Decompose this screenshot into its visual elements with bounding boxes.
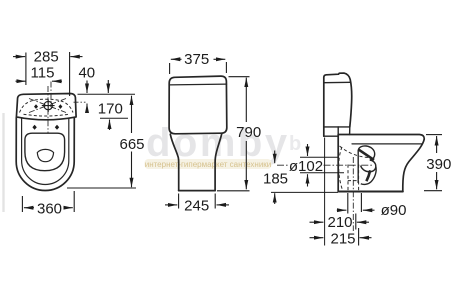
svg-text:790: 790 [236, 124, 261, 141]
cistern side outline [324, 73, 352, 136]
o90 ext left [347, 193, 349, 214]
pipe bottom hidden [348, 180, 359, 182]
svg-text:360: 360 [37, 201, 62, 218]
hinge diamonds [32, 125, 59, 130]
svg-text:245: 245 [184, 198, 209, 215]
watermark tan band [145, 159, 272, 169]
seat opening [25, 133, 65, 171]
dim 390 line arrows [424, 135, 442, 191]
dim 360 arrows [22, 191, 74, 212]
ext 245 right [214, 194, 216, 209]
ext 360 left [21, 196, 23, 212]
ext 390 bottom [424, 190, 442, 192]
svg-text:215: 215 [330, 230, 355, 247]
svg-text:40: 40 [78, 64, 95, 81]
svg-text:170: 170 [98, 101, 123, 118]
ext 790 top [229, 76, 250, 78]
ext 790 bottom [217, 190, 250, 192]
dim 115 arrows [16, 80, 63, 82]
dim 215 arrows [310, 228, 372, 246]
ext line left 285 [25, 53, 27, 86]
ext line tank rear [78, 93, 136, 95]
watermark faint arc far left [2, 113, 4, 212]
bowl rim hidden dashes [340, 146, 370, 158]
cistern top outline [16, 94, 76, 120]
svg-text:ø90: ø90 [381, 202, 407, 219]
ext line hinge level [100, 117, 128, 119]
o90 ext right [360, 193, 362, 212]
dim 170 arrows [108, 80, 109, 130]
ext 375 right [225, 62, 227, 73]
dim 665 line arrows [131, 96, 133, 188]
ext 360 right [73, 191, 75, 212]
lid front dashed arc [24, 114, 69, 116]
svg-text:375: 375 [184, 51, 209, 68]
o102 leader dashdot [277, 164, 372, 166]
svg-text:b: b [289, 133, 301, 155]
o102 ext lower [300, 172, 344, 174]
pedestal right [215, 134, 222, 191]
seat top surface [338, 135, 424, 140]
ext 390 top [426, 134, 442, 136]
bowl back vertical [337, 135, 339, 192]
215 tick right [358, 228, 360, 246]
trap back hidden dashes [339, 147, 343, 190]
dim o102 arrows [307, 144, 309, 187]
flush button target [42, 99, 55, 112]
back wall ext vertical [324, 138, 326, 246]
svg-text:210: 210 [327, 214, 352, 231]
svg-text:285: 285 [34, 49, 59, 66]
floor ext to 185 [271, 191, 338, 193]
bowl front edge [403, 139, 424, 191]
ext 245 left [178, 194, 180, 209]
base bottom [179, 190, 215, 192]
outlet centerline dashdot [352, 157, 354, 231]
o102 ext upper [300, 156, 338, 158]
dim 375 arrows [170, 59, 227, 74]
dim 210 arrows [310, 214, 370, 230]
ext 375 left [169, 63, 171, 74]
dim o90 arrows [337, 193, 375, 214]
dim 185 arrows [274, 151, 276, 205]
housing below cistern [324, 127, 338, 136]
base bottom line [338, 191, 402, 193]
cistern right edge to seat [349, 127, 351, 135]
dim 115 centerline dashdot [50, 82, 52, 104]
svg-text:115: 115 [31, 64, 55, 81]
cistern bottom [324, 126, 350, 128]
pedestal left [170, 134, 178, 190]
bowl outer U [16, 118, 74, 191]
dim 790 line arrows [217, 77, 250, 191]
water smile [37, 149, 53, 161]
dim 40 arrows [86, 81, 88, 113]
tank front outline [169, 76, 227, 134]
lid seam [169, 83, 226, 86]
seat outer line [22, 119, 69, 185]
svg-text:390: 390 [426, 156, 451, 173]
dashdot diagonals through button [29, 99, 66, 113]
svg-text:665: 665 [119, 136, 144, 153]
seat lower edge [352, 143, 422, 145]
dim 285 arrows [13, 52, 83, 96]
svg-text:интернет-гипермаркет сантехник: интернет-гипермаркет сантехники [145, 160, 272, 169]
tank top small diamonds [34, 104, 62, 109]
210 tick right [355, 214, 357, 230]
ext line right 285 [69, 52, 71, 96]
svg-text:185: 185 [263, 171, 288, 188]
lid inner dashed arc [20, 99, 74, 112]
center vertical dashdot [47, 86, 49, 133]
dim 245 arrows [165, 194, 229, 209]
cistern lid seam [324, 81, 351, 83]
dim 40 dashdot ext [74, 101, 86, 103]
ext line bowl front [67, 187, 136, 189]
outlet pipe hidden verticals [348, 165, 359, 192]
trap scroll cut shape [358, 146, 376, 185]
svg-text:ø102: ø102 [289, 158, 323, 175]
svg-text:domby: domby [146, 121, 290, 165]
